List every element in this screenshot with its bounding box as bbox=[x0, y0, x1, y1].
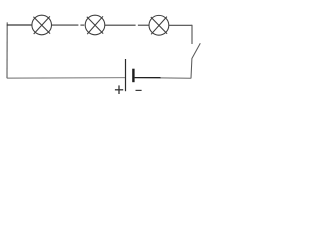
switch S1 open blade (curved lever from bottom wire up to the right) bbox=[191, 43, 200, 78]
wire: battery negative lead (darker) bbox=[135, 77, 161, 79]
label: battery plus sign bbox=[115, 85, 123, 94]
label: battery minus sign bbox=[136, 89, 142, 91]
wire: bottom-right horizontal from switch to battery negative bbox=[160, 77, 191, 79]
battery B1 positive terminal (long thin plate) bbox=[125, 59, 127, 91]
wire: left vertical conductor bbox=[6, 22, 8, 78]
lamp L2 (circle with cross) bbox=[85, 15, 105, 35]
wire: top-left horizontal from corner to lamp L1 bbox=[7, 24, 33, 26]
lamp L3 (circle with cross) bbox=[149, 15, 169, 35]
battery B1 negative terminal (short thick plate) bbox=[132, 69, 134, 83]
wire: lamp L2 to lamp L3 (with small break) bbox=[105, 24, 149, 26]
wire: bottom-left horizontal from battery positive to left corner bbox=[7, 77, 125, 79]
switch S1 fixed contact (vertical drop from top-right corner) bbox=[191, 25, 193, 44]
lamp L1 (circle with cross) bbox=[32, 15, 52, 35]
wire: lamp L3 to top-right corner bbox=[169, 24, 192, 26]
wire: lamp L1 to lamp L2 (with small break) bbox=[51, 24, 84, 26]
